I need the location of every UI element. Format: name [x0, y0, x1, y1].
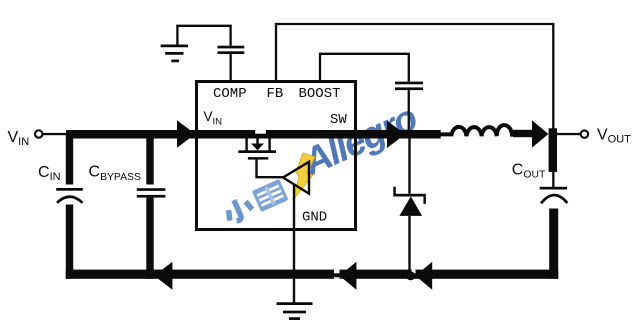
svg-text:COMP: COMP — [213, 86, 247, 102]
capacitor C_BYPASS lead lower — [146, 198, 153, 279]
capacitor C_OUT plate — [540, 187, 567, 190]
wire inductor to arrow thick — [513, 130, 533, 137]
wire node to C_OUT — [552, 171, 554, 188]
notch before rail arrow 3 — [412, 270, 416, 274]
comp capacitor plate 1 — [218, 46, 245, 49]
arrow into VOUT node — [532, 120, 548, 147]
node rail/diode junction — [406, 271, 415, 280]
transistor Q1 arrow — [256, 138, 258, 145]
wire VIN rail thick — [66, 130, 441, 139]
capacitor C_IN plate — [56, 188, 83, 191]
svg-text:BOOST: BOOST — [299, 86, 341, 102]
capacitor C_BYPASS plate 1 — [137, 188, 166, 191]
wire terminal to junction — [43, 133, 68, 135]
watermark chinese characters and Allegro text — [213, 97, 424, 225]
comp capacitor plate 2 — [218, 51, 245, 54]
capacitor C_OUT curved plate — [541, 195, 567, 203]
capacitor C_IN lead upper — [66, 134, 73, 185]
wire boost cap to SW node — [408, 90, 410, 131]
wire driver to GND pin — [293, 184, 295, 304]
catch diode D1 left hook — [393, 187, 396, 195]
catch diode D1 cathode bar — [393, 194, 426, 197]
glyph xiao — [223, 195, 254, 224]
FB feedback wire to VOUT node — [276, 24, 553, 130]
op-amp driver triangle — [283, 162, 309, 194]
VIN terminal — [35, 130, 42, 137]
transistor Q1 channel bar — [238, 150, 276, 153]
arrow on SW wire — [387, 121, 405, 148]
capacitor C_BYPASS plate 2 — [137, 195, 166, 198]
wire comp cap to ground — [177, 26, 230, 46]
rail arrow 3 — [416, 262, 433, 290]
catch diode D1 triangle — [399, 196, 422, 216]
transistor Q1 source vertical — [268, 138, 270, 151]
node C_IN junction — [66, 130, 74, 138]
catch diode D1 wire upper — [408, 138, 410, 194]
COMP pin wire — [230, 54, 232, 80]
rail arrow 2 — [340, 262, 357, 290]
catch diode D1 right hook — [423, 196, 426, 204]
capacitor C_OUT lead lower — [549, 209, 558, 279]
svg-text:FB: FB — [267, 86, 284, 102]
VOUT terminal — [581, 130, 588, 137]
mosfet notch in rail — [255, 130, 266, 134]
wire gate to driver — [257, 160, 285, 178]
glyph hu (boxy) — [252, 179, 289, 212]
VOUT node bar — [549, 128, 557, 172]
transistor Q1 drain vertical — [245, 138, 247, 151]
wire node to VOUT terminal — [557, 133, 581, 135]
ground symbol (IC) — [277, 304, 313, 319]
svg-text:GND: GND — [302, 210, 327, 226]
watermark yellow bolt — [293, 153, 315, 200]
inductor L1 — [441, 125, 515, 136]
arrow into IC VIN pin — [177, 120, 195, 148]
rail arrow 1 — [154, 262, 172, 290]
capacitor C_BYPASS lead upper — [146, 134, 153, 185]
svg-text:SW: SW — [330, 112, 347, 128]
capacitor C_IN curved plate — [57, 197, 83, 203]
ground symbol (comp) — [161, 46, 188, 61]
IC box U1 — [197, 82, 356, 230]
catch diode D1 wire lower — [408, 216, 410, 272]
boost capacitor plate 2 — [395, 87, 423, 90]
capacitor C_IN lead lower — [66, 205, 73, 279]
boost capacitor plate 1 — [395, 82, 423, 85]
notch before rail arrow 2 — [334, 270, 340, 274]
transistor Q1 gate bar — [248, 157, 268, 160]
ground return rail — [66, 270, 558, 279]
BOOST pin wire — [320, 54, 409, 82]
